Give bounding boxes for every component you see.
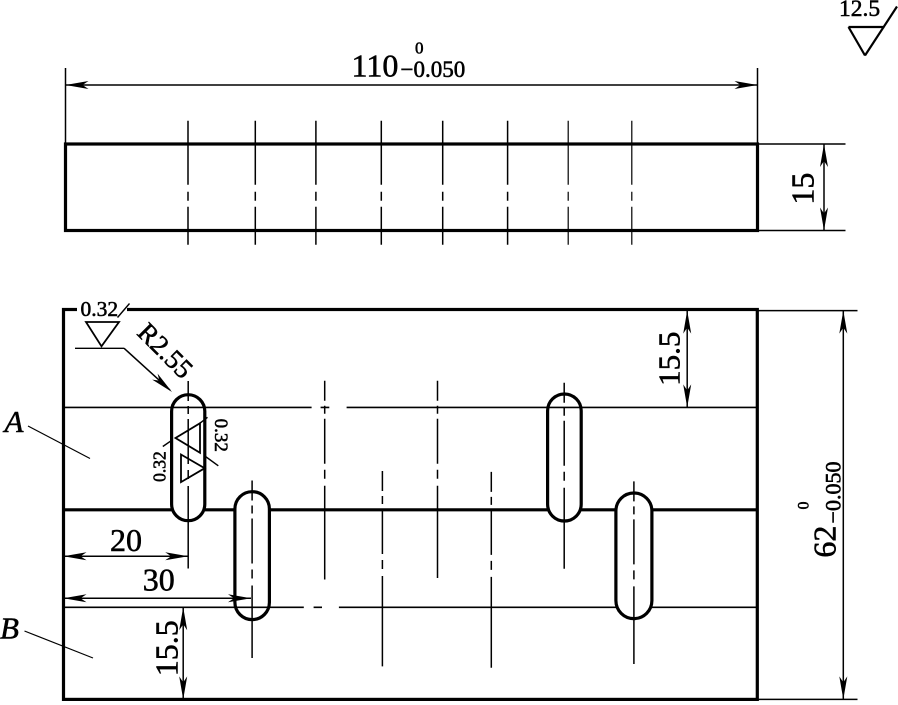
- svg-text:−0.050: −0.050: [401, 57, 466, 82]
- svg-text:−0.050: −0.050: [821, 462, 846, 524]
- svg-text:B: B: [0, 610, 19, 645]
- svg-text:15.5: 15.5: [148, 620, 184, 676]
- svg-text:0.32: 0.32: [150, 451, 170, 482]
- svg-text:12.5: 12.5: [839, 0, 880, 22]
- svg-text:30: 30: [143, 561, 175, 597]
- svg-text:0: 0: [796, 502, 813, 510]
- svg-text:15.5: 15.5: [651, 332, 686, 386]
- svg-text:15: 15: [785, 173, 821, 205]
- svg-text:0: 0: [415, 39, 424, 58]
- svg-text:0.32: 0.32: [80, 297, 118, 321]
- svg-text:62: 62: [806, 526, 842, 558]
- svg-text:110: 110: [352, 48, 399, 84]
- svg-text:0.32: 0.32: [210, 419, 231, 452]
- svg-text:A: A: [3, 404, 25, 439]
- svg-text:20: 20: [110, 522, 142, 558]
